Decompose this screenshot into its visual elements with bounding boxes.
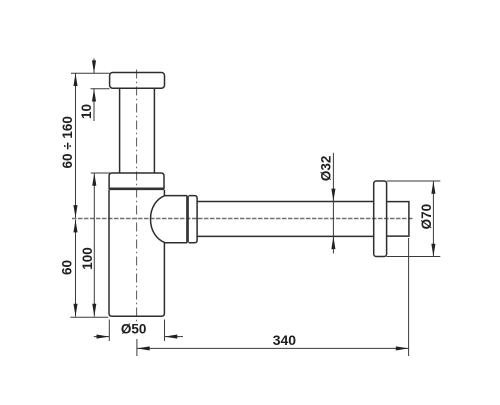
dimension Ø50 right leader with left arrow	[165, 336, 184, 338]
outlet pipe top edge	[197, 201, 374, 203]
dimension Ø50 left leader with right arrow	[94, 336, 110, 338]
trap union nut thick bottom edge	[109, 188, 164, 191]
inlet pipe left edge	[119, 88, 121, 173]
svg-text:Ø70: Ø70	[419, 204, 434, 230]
svg-text:10: 10	[79, 104, 94, 119]
svg-text:100: 100	[80, 247, 95, 270]
outlet pipe wall stub	[387, 202, 409, 237]
dimension 10 extension line at flange bottom	[91, 88, 110, 90]
dimension 10 upper leader with down arrow	[93, 59, 95, 74]
outlet compression nut ring	[189, 196, 197, 243]
horizontal centerline of outlet pipe	[72, 218, 413, 220]
trap body	[109, 190, 164, 316]
dimension Ø32 line with outside arrows	[332, 153, 334, 254]
svg-text:340: 340	[273, 332, 297, 348]
top wall flange	[110, 73, 165, 89]
svg-text:60: 60	[59, 260, 74, 275]
dimension 10 extension line at flange top	[71, 72, 110, 74]
vertical centerline of trap body	[136, 70, 138, 323]
trap body right edge upper segment	[163, 190, 165, 196]
right wall flange	[374, 181, 387, 257]
dimension Ø50 right extension line	[164, 320, 166, 342]
dimension 60 line	[75, 220, 77, 317]
trap union nut	[109, 173, 164, 190]
dimension Ø70 top extension line	[387, 180, 441, 182]
dimension 340 left extension line at body centerline	[136, 339, 138, 356]
dimension 340 line	[137, 347, 409, 349]
dimension Ø50 left extension line	[108, 320, 110, 342]
outlet pipe bottom edge	[197, 235, 374, 237]
dimension Ø70 bottom extension line	[387, 256, 441, 258]
dimension 10 lower leader with up arrow	[93, 89, 95, 121]
outlet elbow dome	[151, 196, 188, 243]
inlet pipe right edge	[153, 88, 155, 173]
dimension 100 extension line at nut top	[91, 172, 111, 174]
svg-text:Ø50: Ø50	[121, 322, 147, 337]
outlet compression nut thick line	[186, 196, 189, 243]
svg-text:60 ÷ 160: 60 ÷ 160	[60, 116, 75, 168]
dimension Ø70 line	[432, 181, 434, 257]
svg-text:Ø32: Ø32	[318, 156, 333, 182]
dimension 60÷160 line	[75, 73, 77, 218]
dimension 100/60 extension line at body bottom	[70, 316, 108, 318]
dimension 100 line	[93, 173, 95, 317]
dimension 340 right extension line at pipe end	[408, 238, 410, 356]
